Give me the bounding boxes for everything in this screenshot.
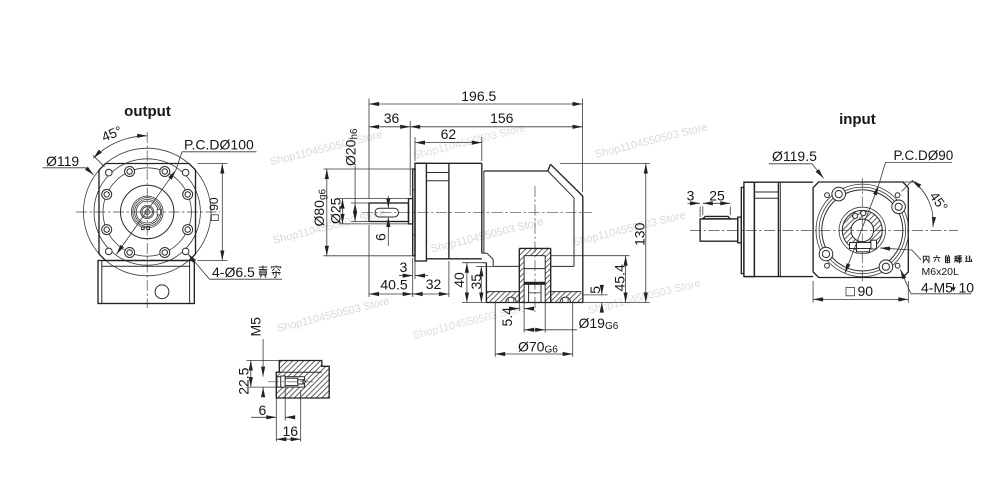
svg-text:90: 90 [858, 283, 874, 299]
svg-text:156: 156 [490, 110, 514, 126]
svg-text:3: 3 [687, 188, 695, 204]
svg-text:5.4: 5.4 [499, 307, 515, 327]
svg-text:22.5: 22.5 [235, 367, 251, 394]
svg-text:P.C.DØ90: P.C.DØ90 [894, 148, 954, 163]
svg-text:40.5: 40.5 [380, 276, 407, 292]
svg-text:40: 40 [451, 272, 467, 288]
svg-text:output: output [124, 103, 171, 120]
svg-text:P.C.DØ100: P.C.DØ100 [184, 137, 254, 153]
svg-text:196.5: 196.5 [461, 88, 496, 104]
svg-text:16: 16 [283, 423, 299, 439]
svg-text:36: 36 [384, 110, 400, 126]
svg-text:90: 90 [207, 197, 221, 211]
svg-text:M5: M5 [248, 317, 264, 337]
svg-text:45.4: 45.4 [612, 264, 628, 291]
svg-text:M6x20L: M6x20L [922, 266, 960, 278]
svg-text:130: 130 [632, 222, 648, 246]
svg-text:25: 25 [709, 187, 725, 203]
svg-text:Ø25: Ø25 [328, 197, 344, 224]
svg-text:62: 62 [441, 126, 457, 142]
svg-text:Ø119.5: Ø119.5 [772, 148, 817, 164]
svg-text:4-Ø6.5: 4-Ø6.5 [212, 264, 255, 280]
svg-text:Ø119: Ø119 [46, 153, 79, 169]
svg-text:5: 5 [587, 286, 603, 294]
svg-text:input: input [839, 111, 876, 128]
svg-text:6: 6 [259, 402, 267, 418]
svg-text:35: 35 [468, 274, 484, 290]
svg-text:10: 10 [959, 279, 975, 295]
svg-text:32: 32 [426, 276, 442, 292]
svg-text:4-M5: 4-M5 [921, 279, 953, 295]
svg-text:6: 6 [373, 233, 389, 241]
svg-text:3: 3 [400, 259, 408, 275]
